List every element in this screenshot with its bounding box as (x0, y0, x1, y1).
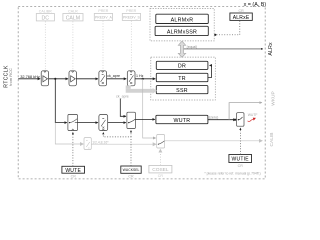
svg-text:* please refer to ref. manual: * please refer to ref. manual (p.794ff.) (204, 172, 260, 176)
sync prescaler block (127, 71, 135, 86)
svg-text:CR: CR (71, 174, 77, 178)
svg-text:WUTE: WUTE (65, 168, 81, 174)
svg-text:ck_apre: ck_apre (107, 74, 120, 78)
wire RTCCLK to gray divider (55, 123, 83, 144)
svg-text:WKUP: WKUP (271, 91, 277, 105)
wire async to sync prescaler (107, 78, 127, 80)
svg-text:TR: TR (178, 76, 186, 82)
junction to wakeup branch (54, 78, 56, 80)
wire divider to wakeup mux (108, 122, 126, 124)
junction ck_spre (142, 78, 144, 80)
wire calib2 to async prescaler (76, 78, 98, 80)
register DR (156, 61, 208, 69)
gray divider by 2 4 8 16 (84, 138, 91, 150)
svg-text:CALR: CALR (68, 9, 78, 13)
wakeup divider block (99, 115, 108, 131)
wire ck_apre tap to wakeup mux (120, 99, 126, 117)
svg-text:x = (A, B): x = (A, B) (244, 2, 267, 8)
control line CALM to calib block 2 (72, 21, 74, 69)
svg-text:CALIB: CALIB (269, 133, 275, 147)
alarm dashed box (150, 9, 214, 41)
svg-text:DR: DR (178, 64, 186, 70)
calendar dashed box (151, 57, 216, 100)
wire wakeup to WKUP output (229, 103, 262, 120)
svg-text:COSEL: COSEL (152, 167, 169, 173)
junction on alarm box edge (214, 34, 216, 36)
svg-text:CR: CR (238, 164, 244, 168)
svg-text:(zero): (zero) (209, 116, 218, 120)
wire alarm match to ALRx output (184, 48, 263, 50)
svg-text:SSR: SSR (176, 88, 188, 94)
wire ck_spre down to calib output mux (143, 79, 156, 138)
svg-text:PREDIV_A: PREDIV_A (95, 16, 113, 20)
register bit WUTE (62, 166, 85, 174)
svg-text:WUTR: WUTR (173, 118, 190, 124)
svg-text:ALRx: ALRx (268, 42, 274, 55)
register bit ALRxE (230, 13, 252, 21)
svg-text:from RCC: from RCC (9, 68, 13, 86)
svg-text:CALIBR: CALIBR (39, 9, 52, 13)
RTC outer dashed boundary (18, 7, 265, 179)
control line PREDIV_S to sync prescaler (130, 21, 132, 70)
svg-text:PREDIV_S: PREDIV_S (123, 16, 141, 20)
register bit WUTIE (229, 155, 252, 163)
junction before flag block (234, 119, 236, 121)
register PREDIV_S (122, 14, 140, 21)
svg-text:CR: CR (238, 9, 244, 13)
wire calib1 to calib2 (49, 78, 68, 80)
svg-text:ck_apre: ck_apre (116, 94, 129, 98)
register ALRMxSSR (155, 26, 208, 35)
svg-text:ALRMxR: ALRMxR (171, 17, 194, 23)
svg-text:PRER: PRER (126, 9, 136, 13)
wire gate to wakeup divider (78, 122, 98, 124)
register PREDIV_A (94, 14, 112, 21)
svg-text:WUTF: WUTF (248, 113, 258, 117)
svg-text:ALRxE: ALRxE (233, 15, 250, 21)
svg-text:CALM: CALM (66, 16, 80, 22)
async prescaler block (99, 71, 107, 86)
wire calib mux to CALIB output (165, 140, 262, 142)
calib block 2 (69, 71, 76, 86)
wire RTCCLK branch down to wakeup row (55, 79, 67, 123)
register SSR (156, 86, 208, 94)
svg-text:PRER: PRER (98, 9, 108, 13)
comparator double arrow (178, 41, 187, 57)
svg-text:1 Hz: 1 Hz (136, 74, 144, 78)
wire WUTR to wakeup flag block (208, 119, 236, 121)
wire RTCCLK to calib 1 (18, 78, 40, 80)
register CALM (63, 14, 83, 22)
svg-text:32.768 kHz: 32.768 kHz (20, 74, 40, 79)
svg-text:WUTIE: WUTIE (232, 157, 250, 163)
control line DC to calib block 1 (44, 21, 46, 69)
svg-text:CR: CR (128, 174, 134, 178)
wire sync prescaler to TR (135, 78, 155, 80)
register TR (156, 73, 208, 82)
register bit COSEL (149, 165, 172, 173)
bus sub-second counter to SSR (126, 86, 131, 89)
control line WUTIE to flag block (239, 128, 241, 155)
register WUTR (156, 115, 208, 124)
flag event red arrow (248, 119, 254, 121)
wakeup gate switch block (68, 115, 78, 131)
wakeup clock mux (127, 112, 135, 128)
wire gray divider to calib mux (91, 143, 155, 145)
control line WUTE to gate (72, 132, 74, 166)
control line WUCKSEL to mux and divider (103, 132, 131, 166)
calib block 1 (41, 71, 48, 86)
calib output mux COSEL (157, 135, 165, 149)
register ALRMxR (156, 14, 209, 23)
svg-text:ALRMxSSR: ALRMxSSR (167, 30, 197, 36)
wire mux to WUTR (135, 118, 155, 120)
wire TR rollover to DR (208, 65, 212, 77)
svg-text:WUCKSEL: WUCKSEL (123, 168, 140, 172)
register DC (36, 14, 54, 22)
svg-text:CR: CR (158, 174, 164, 178)
control line PREDIV_A to async prescaler (102, 21, 104, 70)
wakeup flag switch block (237, 113, 244, 127)
control line ALRxE to alarm box (216, 21, 239, 35)
svg-text:DC: DC (42, 16, 50, 22)
control line COSEL to calib mux (159, 150, 161, 166)
svg-text:1/2,4,8,16*: 1/2,4,8,16* (92, 140, 109, 144)
register bit WUCKSEL (121, 166, 141, 173)
